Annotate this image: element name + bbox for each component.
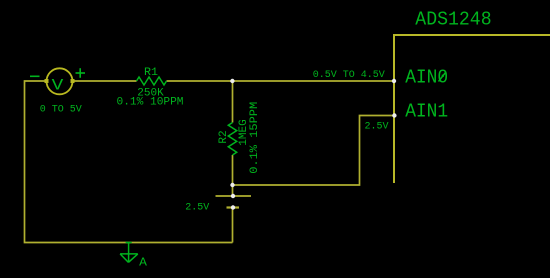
voltage source V1 circle [47, 68, 73, 94]
pin dot AIN1 [392, 113, 396, 117]
IC U1 ADS1248 box edge [394, 35, 550, 183]
svg-text:0.5V TO 4.5V: 0.5V TO 4.5V [313, 70, 385, 81]
pin label AIN0 zero slash [439, 73, 446, 82]
svg-text:0.1% 10PPM: 0.1% 10PPM [117, 97, 184, 109]
svg-text:2.5V: 2.5V [365, 121, 389, 132]
pin dot AIN0 [392, 79, 396, 83]
svg-text:A: A [139, 255, 148, 269]
plus sign [76, 68, 86, 78]
svg-text:0 TO 5V: 0 TO 5V [40, 104, 82, 115]
wire battery bottom to ground rail [232, 208, 234, 243]
ground symbol A [120, 243, 138, 263]
voltage source terminal right [71, 79, 75, 83]
battery B1 top plate [216, 195, 252, 197]
junction dot battery/AIN1 node [230, 183, 234, 187]
svg-text:ADS1248: ADS1248 [415, 9, 491, 31]
wire R1 to AIN0 pin [167, 80, 395, 82]
voltage source terminal left [45, 79, 49, 83]
minus sign [30, 75, 40, 77]
resistor R1 zigzag [137, 77, 167, 85]
svg-text:AIN1: AIN1 [405, 101, 448, 123]
svg-text:0.1% 15PPM: 0.1% 15PPM [249, 102, 261, 174]
battery bottom pin dot [231, 205, 235, 209]
battery B1 bottom plate [227, 206, 240, 208]
wire R2 bottom to battery top [232, 155, 234, 196]
resistor R2 zigzag vertical [228, 123, 236, 156]
wire junction to R2 top [232, 81, 234, 123]
wire V+ to R1 [73, 80, 137, 82]
svg-text:2.5V: 2.5V [185, 203, 209, 214]
wire left loop from V- down and along bottom [25, 81, 233, 243]
svg-text:V: V [52, 76, 64, 94]
svg-text:R2: R2 [218, 130, 230, 143]
battery top pin dot [231, 194, 235, 198]
svg-text:R1: R1 [144, 67, 158, 79]
wire AIN1 net from battery junction to AIN1 pin [233, 116, 395, 186]
junction dot R1/R2 node [230, 79, 234, 83]
